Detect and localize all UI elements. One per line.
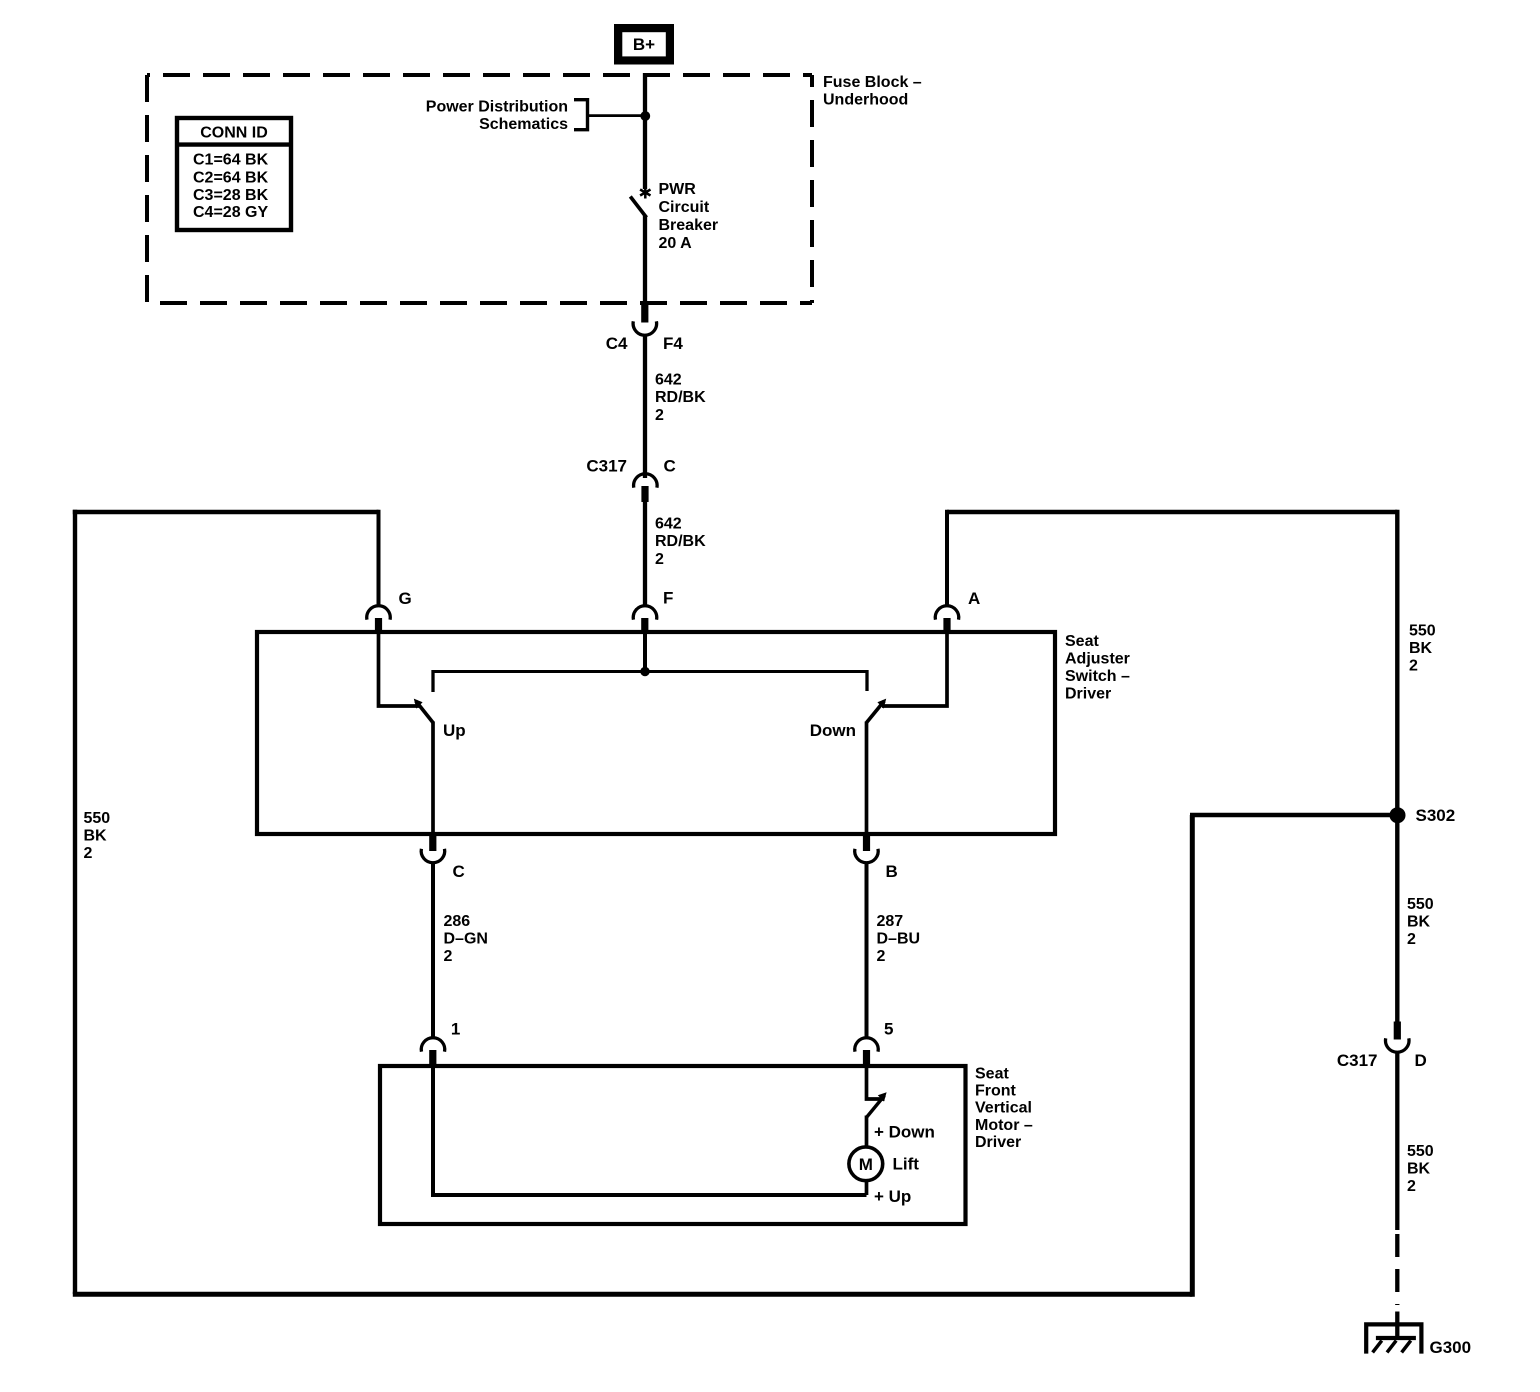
wire breaker blade to motor <box>865 1116 869 1148</box>
bracket to power distribution <box>574 100 588 130</box>
svg-text:C: C <box>453 862 465 881</box>
switch pin C stub <box>429 836 436 851</box>
wire motor pin 5 to breaker contact <box>867 1064 885 1099</box>
switch pin G cap <box>367 606 391 620</box>
label 642 RD/BK 2 lower <box>655 515 706 568</box>
connector C317 pin C cap <box>634 474 657 488</box>
label Power Distribution Schematics <box>426 98 568 133</box>
label Fuse Block - Underhood <box>823 74 922 109</box>
feed rail left contact stub <box>431 670 434 692</box>
connector C317 pin D cup <box>1386 1038 1410 1052</box>
wire bracket to B+ feed <box>588 114 646 117</box>
svg-text:Seat: Seat <box>1065 633 1099 650</box>
svg-text:2: 2 <box>655 407 664 424</box>
svg-text:BK: BK <box>84 827 108 844</box>
motor pin 1 stub <box>429 1050 436 1066</box>
wire riser to S302 <box>1190 813 1397 818</box>
svg-text:C317: C317 <box>1337 1051 1378 1070</box>
svg-text:5: 5 <box>884 1019 893 1038</box>
wire ground loop bottom <box>73 1292 1193 1297</box>
wire pin F into switch <box>643 630 647 672</box>
Up switch blade <box>416 701 434 723</box>
svg-text:C4=28 GY: C4=28 GY <box>193 204 268 221</box>
wire pin G into switch <box>379 630 421 706</box>
svg-text:RD/BK: RD/BK <box>655 533 706 550</box>
switch feed rail <box>433 670 867 673</box>
svg-text:F: F <box>663 588 673 607</box>
svg-text:550: 550 <box>1407 1143 1434 1160</box>
svg-text:642: 642 <box>655 515 682 532</box>
motor M circle <box>849 1147 883 1181</box>
svg-text:Seat: Seat <box>975 1066 1009 1083</box>
svg-text:G300: G300 <box>1430 1338 1472 1357</box>
wire ground loop left leg <box>73 510 77 1294</box>
wire breaker to C4 <box>643 216 647 306</box>
label 287 D-BU 2 <box>877 913 921 965</box>
ground G300 hatch 3 <box>1402 1341 1411 1353</box>
seat front vertical motor box <box>380 1066 966 1224</box>
motor pin 5 stub <box>863 1050 870 1066</box>
svg-text:642: 642 <box>655 371 682 388</box>
svg-text:D: D <box>1415 1051 1427 1070</box>
circuit breaker asterisk <box>640 187 650 199</box>
motor pin 5 cap <box>855 1038 879 1052</box>
svg-text:2: 2 <box>444 948 453 965</box>
wire C317 to switch pin F, circuit 642 RD/BK <box>643 501 647 606</box>
label 642 RD/BK 2 upper <box>655 371 706 424</box>
Down switch blade arrowhead <box>877 699 886 709</box>
switch pin B stub <box>863 836 870 851</box>
wire motor pin 1 to motor minus <box>433 1064 867 1195</box>
connector C4/F4 stub <box>641 305 648 323</box>
motor breaker blade arrowhead <box>878 1092 887 1101</box>
motor pin 1 cap <box>421 1038 445 1052</box>
label Seat Adjuster Switch - Driver <box>1065 633 1130 703</box>
svg-text:Driver: Driver <box>975 1134 1021 1151</box>
svg-text:C4: C4 <box>606 334 628 353</box>
switch pin F stub <box>641 618 648 632</box>
svg-text:287: 287 <box>877 913 904 930</box>
feed rail right contact stub <box>865 670 868 691</box>
wire B+ down to breaker <box>643 73 647 189</box>
svg-text:BK: BK <box>1407 913 1431 930</box>
svg-text:+ Down: + Down <box>874 1122 935 1141</box>
label 550 BK 2 right middle <box>1407 896 1434 948</box>
wire Up blade to pin C <box>431 722 435 835</box>
svg-text:Motor –: Motor – <box>975 1117 1033 1134</box>
motor internal breaker blade <box>867 1096 885 1118</box>
svg-text:2: 2 <box>1407 1178 1416 1195</box>
svg-text:C3=28 BK: C3=28 BK <box>193 187 269 204</box>
wire pin G ground loop top <box>73 510 379 514</box>
svg-text:286: 286 <box>444 913 471 930</box>
wire C4 to C317 pin C, circuit 642 RD/BK <box>643 336 647 478</box>
switch pin G stub <box>375 618 382 632</box>
svg-text:Vertical: Vertical <box>975 1100 1032 1117</box>
svg-text:2: 2 <box>1409 657 1418 674</box>
switch pin F cap <box>633 606 657 620</box>
svg-text:C1=64 BK: C1=64 BK <box>193 152 269 169</box>
svg-text:Driver: Driver <box>1065 685 1111 702</box>
wire pin B to motor pin 5, circuit 287 D-BU <box>865 864 869 1040</box>
splice S302 dot <box>1390 807 1406 823</box>
svg-text:RD/BK: RD/BK <box>655 389 706 406</box>
switch pin B cup <box>855 849 879 863</box>
svg-text:2: 2 <box>1407 931 1416 948</box>
svg-text:2: 2 <box>877 948 886 965</box>
svg-text:Switch –: Switch – <box>1065 668 1130 685</box>
fuse block underhood dashed box <box>147 75 812 303</box>
label 550 BK 2 right upper <box>1409 622 1436 674</box>
svg-text:Down: Down <box>810 721 856 740</box>
Down switch blade <box>867 701 885 723</box>
svg-text:550: 550 <box>1407 896 1434 913</box>
svg-text:G: G <box>399 589 412 608</box>
svg-text:2: 2 <box>84 845 93 862</box>
svg-text:Lift: Lift <box>893 1154 920 1173</box>
svg-text:BK: BK <box>1407 1160 1431 1177</box>
svg-text:C: C <box>664 456 676 475</box>
svg-text:2: 2 <box>655 551 664 568</box>
label PWR Circuit Breaker 20 A <box>659 181 719 252</box>
svg-text:BK: BK <box>1409 640 1433 657</box>
svg-text:550: 550 <box>1409 622 1436 639</box>
wire ground loop right riser <box>1190 815 1195 1297</box>
svg-text:Schematics: Schematics <box>479 116 568 133</box>
svg-text:F4: F4 <box>663 334 683 353</box>
svg-text:Fuse Block –: Fuse Block – <box>823 74 922 91</box>
circuit breaker blade PWR 20A <box>630 197 646 218</box>
svg-text:C2=64 BK: C2=64 BK <box>193 169 269 186</box>
junction dot at B+ feed <box>640 111 650 121</box>
wire Down blade to pin B <box>865 722 869 835</box>
connector C317 pin C stub <box>641 486 648 502</box>
wire pin C to motor pin 1, circuit 286 D-GN <box>431 864 435 1040</box>
svg-text:B: B <box>886 862 898 881</box>
battery feed B+ box <box>614 24 674 65</box>
connector C317 pin D stub <box>1394 1022 1401 1040</box>
svg-text:B+: B+ <box>633 35 655 54</box>
wire pin A into switch <box>882 630 947 706</box>
svg-text:D–GN: D–GN <box>444 931 488 948</box>
svg-text:D–BU: D–BU <box>877 931 921 948</box>
label 286 D-GN 2 <box>444 913 488 965</box>
wire pin G up to loop <box>377 510 381 606</box>
wire C317 D to ground, circuit 550 BK <box>1395 1053 1399 1230</box>
switch pin A stub <box>943 618 950 632</box>
wire pin A up to loop <box>945 510 949 606</box>
wire motor to plus-up node <box>865 1181 869 1196</box>
ground G300 hatch 2 <box>1387 1341 1396 1353</box>
label Seat Front Vertical Motor - Driver <box>975 1066 1033 1151</box>
label 550 BK 2 right lower <box>1407 1143 1434 1195</box>
svg-text:A: A <box>968 589 980 608</box>
label 550 BK 2 left <box>84 810 111 862</box>
svg-text:Power Distribution: Power Distribution <box>426 98 568 115</box>
svg-text:20 A: 20 A <box>659 235 693 252</box>
switch pin A cap <box>935 606 959 620</box>
svg-text:Circuit: Circuit <box>659 199 710 216</box>
wire ground loop right leg 550 BK <box>1395 510 1399 1022</box>
svg-text:S302: S302 <box>1416 806 1456 825</box>
Up switch blade arrowhead <box>414 699 423 709</box>
svg-text:Up: Up <box>443 721 466 740</box>
wire pin A ground loop top <box>947 510 1397 514</box>
svg-text:550: 550 <box>84 810 111 827</box>
svg-text:Adjuster: Adjuster <box>1065 650 1130 667</box>
seat adjuster switch box <box>257 632 1055 834</box>
svg-text:C317: C317 <box>586 456 627 475</box>
dashed wire to ground G300 <box>1395 1234 1399 1305</box>
junction dot inside switch <box>640 667 649 676</box>
svg-text:CONN ID: CONN ID <box>200 125 268 142</box>
svg-text:+ Up: + Up <box>874 1187 911 1206</box>
ground G300 bar <box>1376 1336 1416 1340</box>
svg-text:Breaker: Breaker <box>659 217 719 234</box>
ground G300 frame <box>1366 1324 1421 1353</box>
CONN ID table <box>177 118 291 230</box>
ground G300 hatch 1 <box>1373 1341 1382 1353</box>
svg-text:Front: Front <box>975 1083 1017 1100</box>
switch pin C cup <box>421 849 445 863</box>
connector C4/F4 cup <box>633 321 657 335</box>
svg-text:Underhood: Underhood <box>823 91 908 108</box>
svg-text:M: M <box>859 1155 873 1174</box>
svg-text:PWR: PWR <box>659 181 697 198</box>
svg-text:1: 1 <box>451 1019 460 1038</box>
